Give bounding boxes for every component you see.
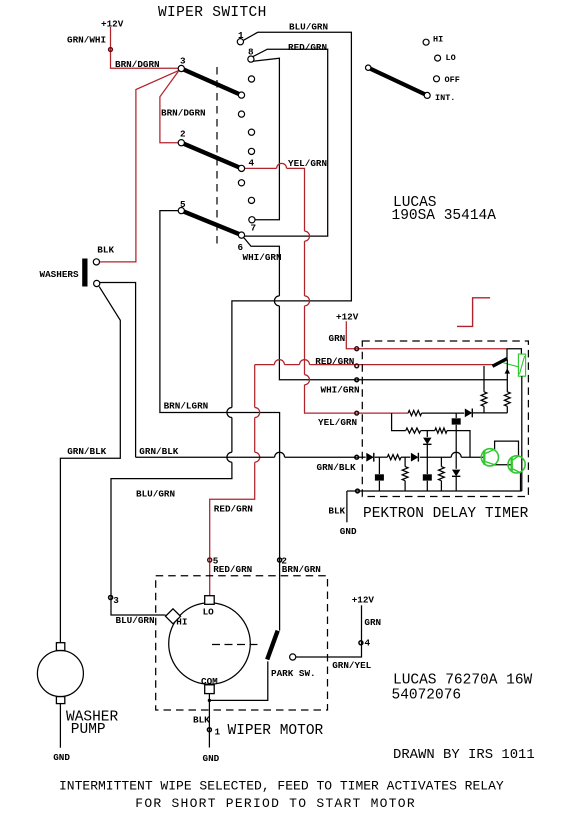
svg-text:BLK: BLK — [328, 506, 345, 517]
svg-text:BRN/DGRN: BRN/DGRN — [161, 108, 206, 119]
svg-text:3: 3 — [180, 56, 186, 67]
svg-text:WASHERS: WASHERS — [40, 269, 79, 280]
svg-text:BRN/DGRN: BRN/DGRN — [115, 59, 160, 70]
svg-text:PUMP: PUMP — [71, 722, 106, 738]
svg-text:PEKTRON DELAY TIMER: PEKTRON DELAY TIMER — [363, 506, 529, 522]
svg-text:8: 8 — [248, 47, 254, 58]
svg-text:GRN/BLK: GRN/BLK — [67, 446, 106, 457]
svg-text:BLU/GRN: BLU/GRN — [116, 615, 155, 626]
svg-text:GRN/BLK: GRN/BLK — [317, 462, 356, 473]
svg-text:WIPER SWITCH: WIPER SWITCH — [158, 5, 267, 21]
svg-text:1: 1 — [238, 30, 244, 41]
svg-text:BLU/GRN: BLU/GRN — [136, 489, 175, 500]
svg-text:GRN/YEL: GRN/YEL — [332, 660, 371, 671]
svg-text:2: 2 — [281, 556, 287, 567]
svg-text:DRAWN BY IRS 1011: DRAWN BY IRS 1011 — [393, 747, 535, 763]
svg-text:+12V: +12V — [352, 595, 375, 606]
svg-text:RED/GRN: RED/GRN — [315, 356, 354, 367]
svg-text:5: 5 — [180, 199, 186, 210]
svg-text:WHI/GRN: WHI/GRN — [243, 252, 282, 263]
svg-text:PARK SW.: PARK SW. — [271, 668, 316, 679]
svg-text:HI: HI — [433, 35, 443, 45]
svg-text:GRN: GRN — [329, 333, 346, 344]
svg-text:COM: COM — [201, 676, 218, 687]
svg-text:BRN/GRN: BRN/GRN — [282, 564, 321, 575]
svg-text:GRN: GRN — [364, 617, 381, 628]
svg-text:BLK: BLK — [193, 715, 210, 726]
svg-text:BLK: BLK — [97, 245, 114, 256]
svg-text:7: 7 — [251, 223, 257, 234]
svg-text:4: 4 — [249, 158, 255, 169]
svg-text:BLU/GRN: BLU/GRN — [289, 22, 328, 33]
svg-text:LO: LO — [446, 53, 456, 63]
svg-text:6: 6 — [238, 242, 244, 253]
svg-text:HI: HI — [176, 617, 187, 628]
svg-text:5: 5 — [213, 556, 219, 567]
svg-text:GRN/WHI: GRN/WHI — [67, 35, 106, 46]
svg-text:LUCAS 76270A 16W: LUCAS 76270A 16W — [393, 673, 533, 689]
svg-text:YEL/GRN: YEL/GRN — [318, 417, 357, 428]
svg-text:LO: LO — [203, 607, 215, 618]
svg-text:RED/GRN: RED/GRN — [288, 42, 327, 53]
svg-text:BRN/LGRN: BRN/LGRN — [164, 401, 209, 412]
svg-text:2: 2 — [180, 129, 186, 140]
svg-text:4: 4 — [365, 637, 371, 648]
svg-text:GND: GND — [203, 753, 220, 764]
svg-text:GND: GND — [340, 526, 357, 537]
svg-text:+12V: +12V — [336, 312, 359, 323]
svg-text:WHI/GRN: WHI/GRN — [321, 385, 360, 396]
svg-text:YEL/GRN: YEL/GRN — [288, 158, 327, 169]
svg-text:WIPER MOTOR: WIPER MOTOR — [228, 723, 324, 739]
svg-text:INT.: INT. — [435, 93, 455, 103]
svg-text:FOR SHORT PERIOD TO START MOTO: FOR SHORT PERIOD TO START MOTOR — [135, 796, 416, 811]
svg-text:+12V: +12V — [101, 19, 124, 30]
svg-text:54072076: 54072076 — [392, 688, 462, 704]
svg-text:190SA 35414A: 190SA 35414A — [392, 208, 497, 224]
svg-text:OFF: OFF — [445, 75, 460, 85]
svg-text:RED/GRN: RED/GRN — [214, 504, 253, 515]
svg-text:GRN/BLK: GRN/BLK — [139, 446, 178, 457]
svg-text:GND: GND — [53, 752, 70, 763]
svg-text:1: 1 — [215, 727, 221, 738]
svg-text:INTERMITTENT WIPE SELECTED, FE: INTERMITTENT WIPE SELECTED, FEED TO TIME… — [59, 779, 504, 794]
svg-text:RED/GRN: RED/GRN — [213, 564, 252, 575]
svg-text:3: 3 — [113, 595, 119, 606]
